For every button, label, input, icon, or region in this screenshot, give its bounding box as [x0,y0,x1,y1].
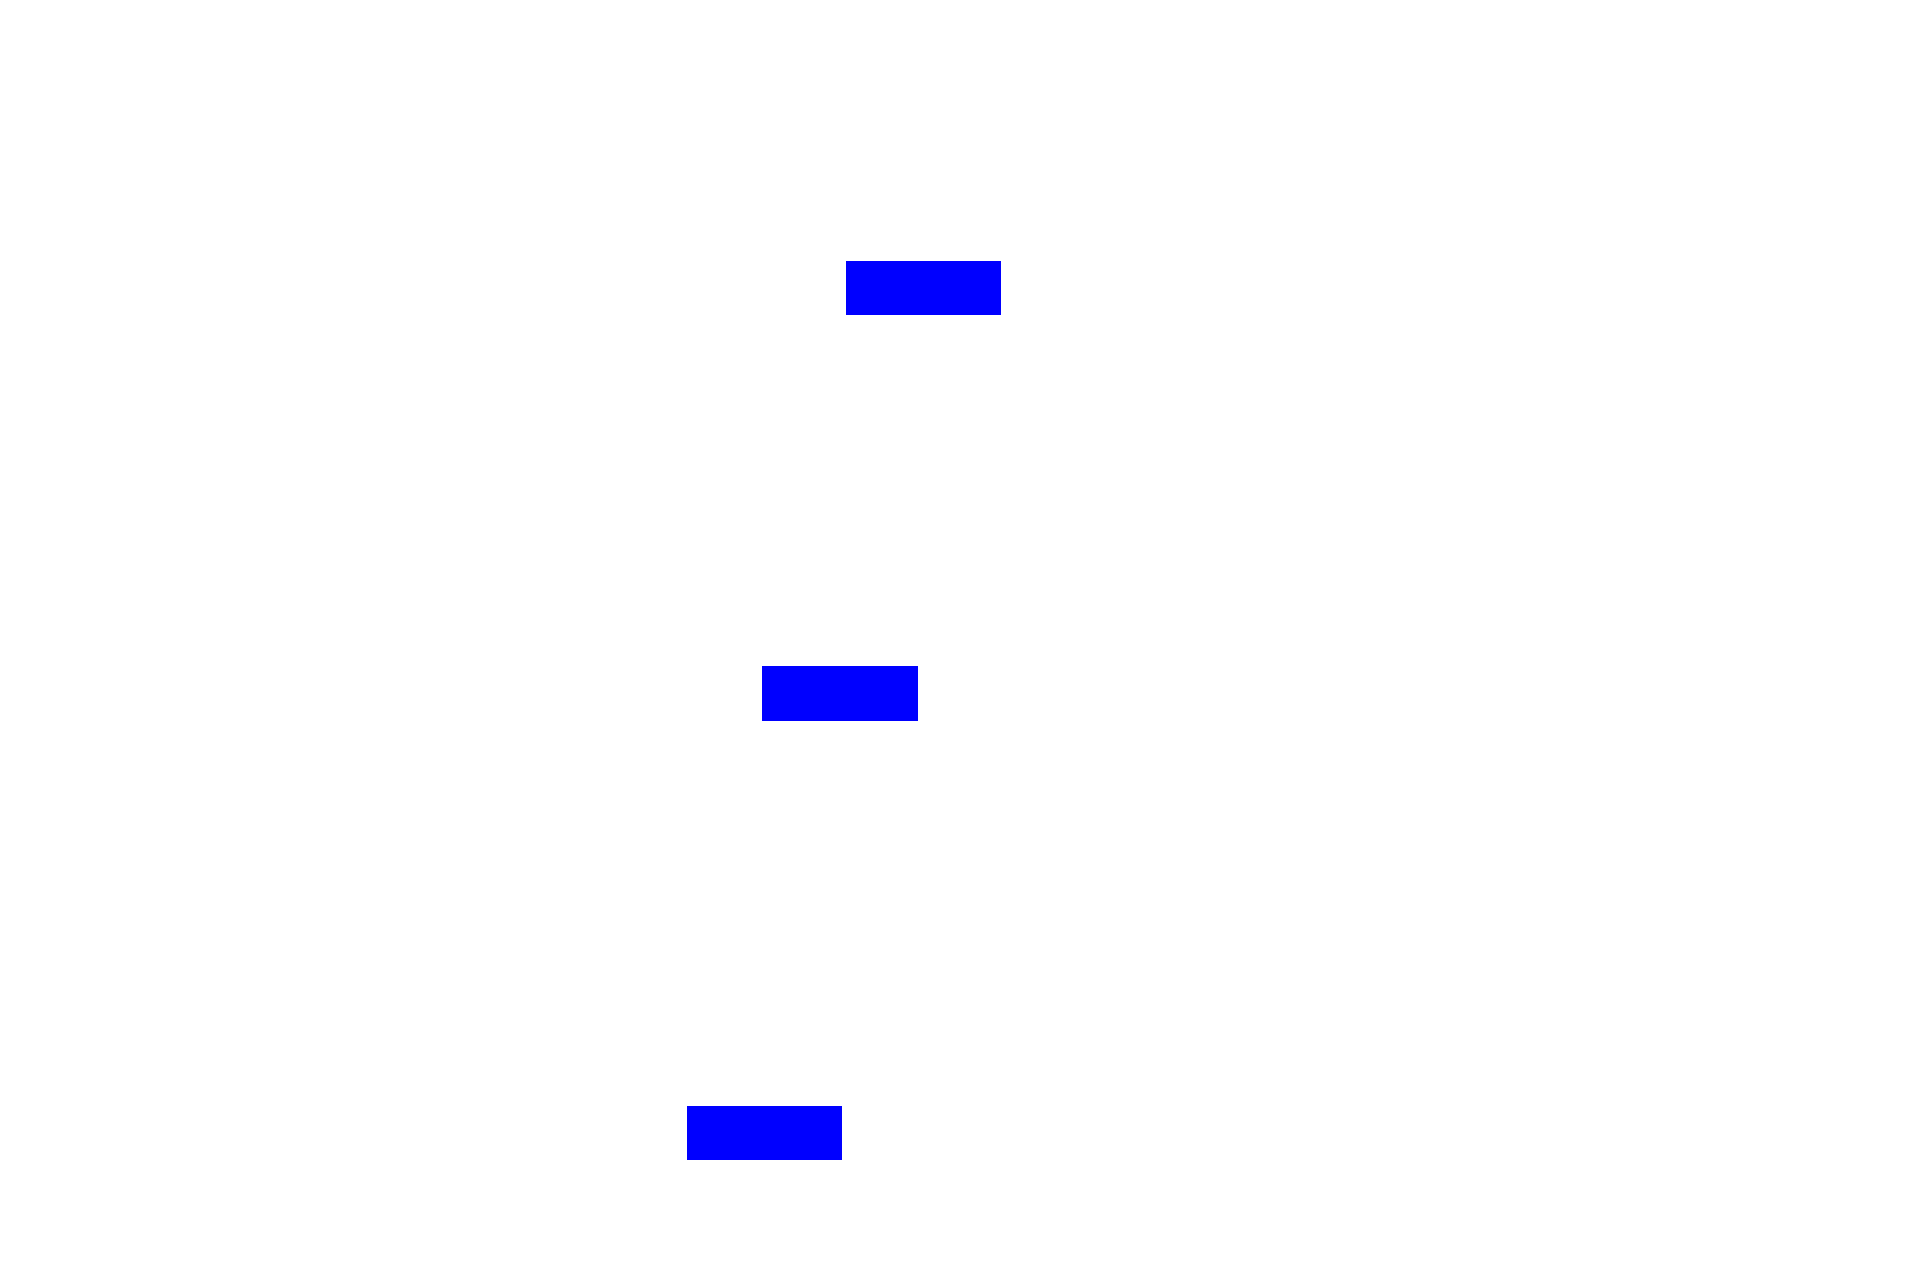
blue rectangle 1 (top) [846,261,1001,315]
blue rectangle 2 (middle) [762,666,918,721]
blue rectangle 3 (bottom) [687,1106,842,1160]
